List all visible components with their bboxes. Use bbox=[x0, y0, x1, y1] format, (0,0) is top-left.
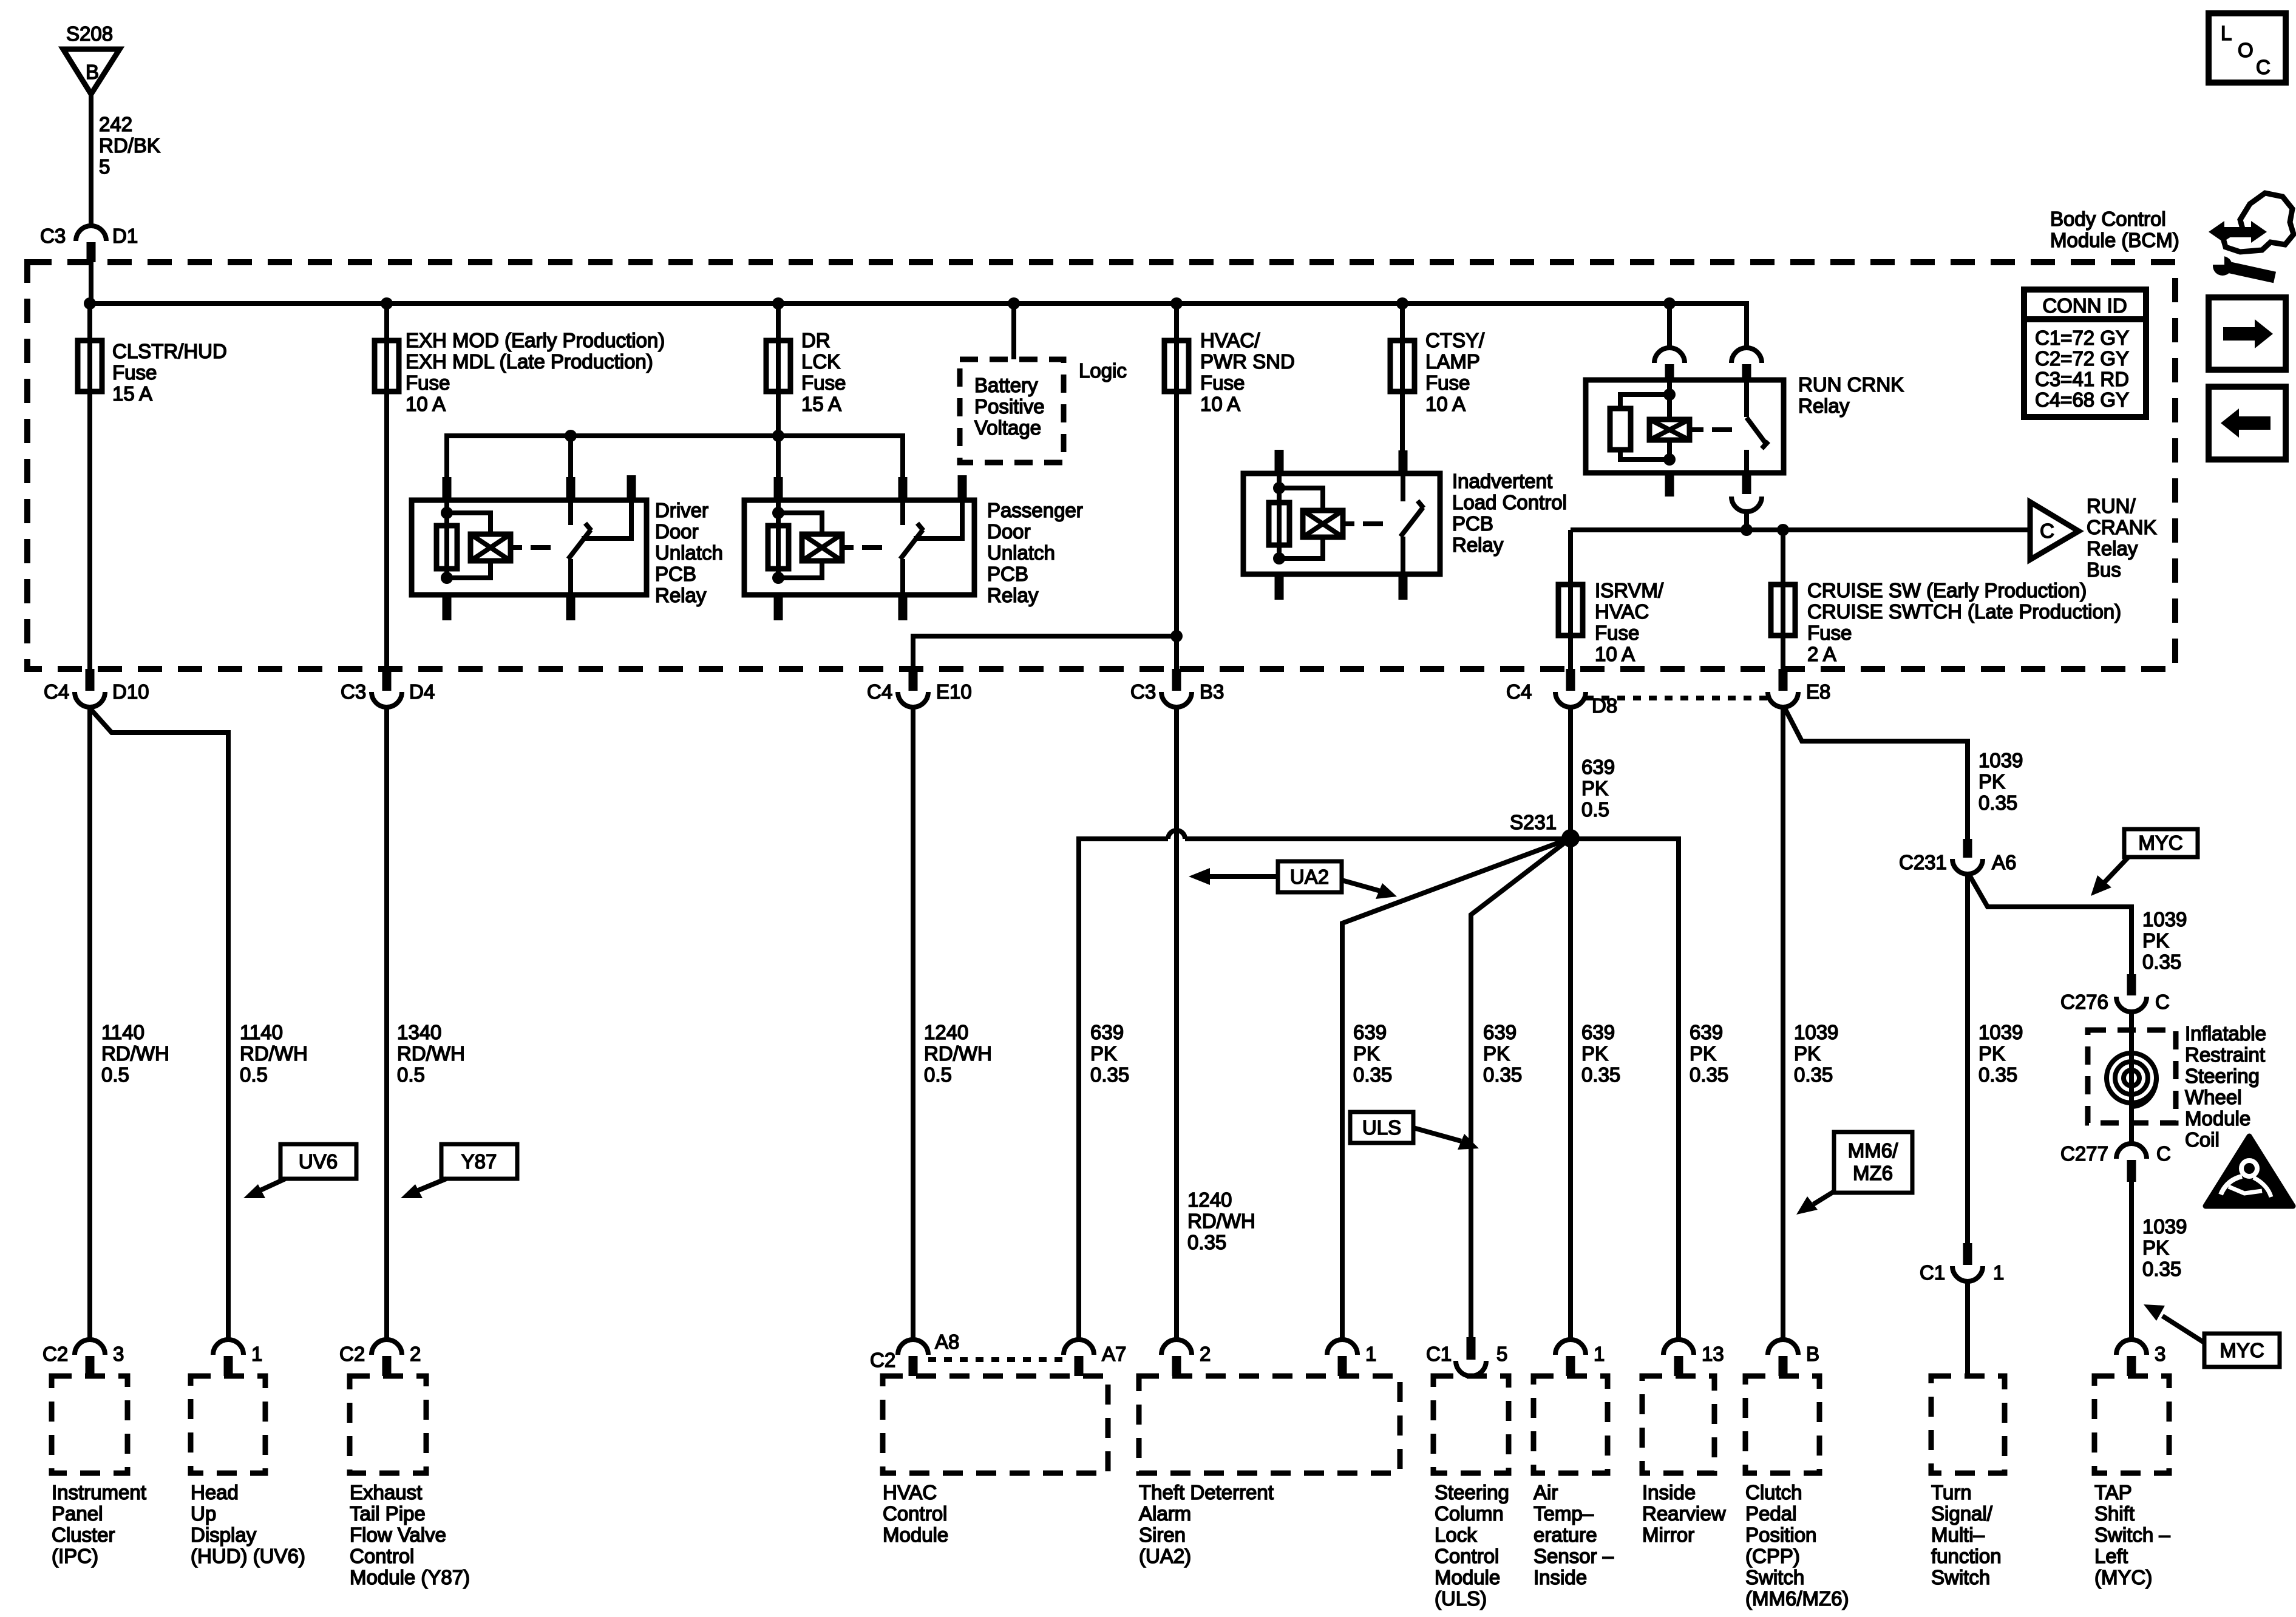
connector C277 C bbox=[2060, 1142, 2171, 1182]
connector arc RUN CRNK switch (internal) bbox=[1731, 348, 1762, 380]
wire B3 to Theft siren pin 2 bbox=[1174, 707, 1179, 1341]
svg-text:MYC: MYC bbox=[2220, 1339, 2264, 1361]
svg-text:C277: C277 bbox=[2060, 1142, 2108, 1165]
label Body Control Module (BCM) bbox=[2050, 208, 2179, 251]
wire S231 down to Air Temperature Sensor bbox=[1568, 838, 1573, 1341]
svg-text:C: C bbox=[2155, 991, 2170, 1013]
svg-text:C231: C231 bbox=[1899, 851, 1947, 873]
svg-text:Lock: Lock bbox=[1435, 1524, 1477, 1546]
svg-text:(IPC): (IPC) bbox=[52, 1545, 98, 1567]
svg-text:0.35: 0.35 bbox=[1353, 1063, 1392, 1086]
svg-text:(HUD) (UV6): (HUD) (UV6) bbox=[191, 1545, 305, 1567]
wire label 1039 PK 0.35 (turn signal) bbox=[1978, 1021, 2023, 1086]
svg-text:DR: DR bbox=[801, 329, 830, 351]
connector 3 (TAP switch) bbox=[2116, 1340, 2165, 1376]
off-page arrow C RUN/CRANK Relay Bus bbox=[2030, 502, 2079, 560]
connector 13 (mirror) bbox=[1663, 1340, 1724, 1376]
wire K3 actuation dashed link bbox=[1363, 521, 1391, 526]
svg-text:Head: Head bbox=[191, 1481, 239, 1503]
svg-text:C1: C1 bbox=[1920, 1261, 1945, 1284]
Inflatable Restraint Steering Wheel Module Coil dashed box bbox=[2088, 1030, 2176, 1123]
wire K1 coil actuator stub bbox=[511, 545, 522, 550]
svg-text:Switch –: Switch – bbox=[2094, 1524, 2170, 1546]
svg-text:CONN ID: CONN ID bbox=[2042, 294, 2127, 317]
svg-text:C3: C3 bbox=[1130, 680, 1156, 703]
wire S231 branch to Theft siren pin 1 bbox=[1342, 838, 1571, 1341]
pin K1 NO contact top stub bbox=[627, 475, 636, 500]
svg-text:1240: 1240 bbox=[1187, 1188, 1232, 1211]
svg-text:Y87: Y87 bbox=[461, 1150, 497, 1173]
svg-text:(MYC): (MYC) bbox=[2094, 1566, 2152, 1588]
module TAP Shift Switch Left box bbox=[2094, 1376, 2169, 1473]
module Steering Column Lock Control Module box bbox=[1433, 1376, 1509, 1473]
wire label 1240 RD/WH 0.35 bbox=[1187, 1188, 1255, 1253]
node K3 coil top junction bbox=[1273, 482, 1285, 494]
wire K1 switch bottom bbox=[568, 559, 573, 595]
module Instrument Panel Cluster box bbox=[52, 1376, 127, 1473]
node bus junction at EXH fuse bbox=[381, 297, 393, 310]
wire K4 coil bottom bbox=[1667, 440, 1672, 459]
wire K4 resistor loop bbox=[1620, 395, 1669, 410]
svg-text:(MM6/MZ6): (MM6/MZ6) bbox=[1745, 1587, 1849, 1610]
wire K4 actuation dashed link bbox=[1712, 427, 1736, 432]
label box UV6 bbox=[243, 1144, 356, 1198]
node bus junction at DR LCK fuse bbox=[772, 297, 784, 310]
switch K4 armature bbox=[1747, 418, 1768, 449]
svg-text:0.35: 0.35 bbox=[2142, 951, 2181, 973]
svg-text:EXH MDL (Late Production): EXH MDL (Late Production) bbox=[406, 350, 653, 373]
svg-text:0.35: 0.35 bbox=[2142, 1258, 2181, 1280]
svg-text:Clutch: Clutch bbox=[1745, 1481, 1802, 1503]
connector C4 E10 bbox=[867, 669, 972, 707]
svg-text:1140: 1140 bbox=[240, 1021, 283, 1043]
svg-text:1240: 1240 bbox=[924, 1021, 968, 1043]
svg-text:CRANK: CRANK bbox=[2087, 516, 2157, 538]
svg-text:0.35: 0.35 bbox=[1978, 792, 2017, 814]
svg-text:639: 639 bbox=[1690, 1021, 1723, 1043]
label RUN CRNK Relay bbox=[1798, 373, 1904, 417]
svg-text:0.35: 0.35 bbox=[1090, 1063, 1129, 1086]
svg-text:C: C bbox=[2156, 1142, 2171, 1165]
wire label 1140 RD/WH 0.5 (HUD) bbox=[240, 1021, 308, 1086]
wire label 242 RD/BK 5 bbox=[99, 113, 160, 178]
svg-text:C2: C2 bbox=[339, 1343, 365, 1365]
svg-text:MYC: MYC bbox=[2138, 832, 2182, 854]
pin K2 switch bottom stub bbox=[898, 595, 908, 620]
node K2 coil top junction bbox=[772, 507, 784, 519]
svg-text:S208: S208 bbox=[66, 22, 113, 45]
svg-text:RD/WH: RD/WH bbox=[240, 1042, 308, 1065]
wire K4 coil actuator stub bbox=[1690, 427, 1703, 432]
wire K1 coil loop return bbox=[447, 561, 491, 578]
svg-text:Coil: Coil bbox=[2185, 1128, 2220, 1151]
svg-text:C1=72 GY: C1=72 GY bbox=[2035, 327, 2129, 349]
node junction DR LCK at rail bbox=[772, 430, 784, 442]
connector C276 C bbox=[2060, 974, 2170, 1013]
wire branch D10 to HUD bbox=[91, 710, 228, 1341]
wire K2 coil branch bbox=[776, 500, 781, 578]
icon hand with arrows and wrench bbox=[2209, 193, 2294, 277]
svg-text:1039: 1039 bbox=[1794, 1021, 1838, 1043]
svg-text:Voltage: Voltage bbox=[974, 416, 1041, 439]
module HVAC Control Module box bbox=[883, 1376, 1108, 1473]
pin K1 coil top bbox=[443, 477, 452, 500]
label Inflatable Restraint Steering Wheel Module Coil bbox=[2185, 1022, 2266, 1151]
svg-text:1039: 1039 bbox=[1978, 1021, 2023, 1043]
svg-text:A7: A7 bbox=[1102, 1343, 1126, 1365]
svg-text:PCB: PCB bbox=[987, 563, 1028, 585]
wire A6 down to C1 1 bbox=[1965, 874, 1970, 1243]
svg-text:Rearview: Rearview bbox=[1642, 1502, 1726, 1525]
svg-text:Restraint: Restraint bbox=[2185, 1043, 2265, 1066]
wire battery logic drop bbox=[1011, 303, 1016, 359]
connector B (CPP switch) bbox=[1768, 1340, 1819, 1376]
connector E8 bbox=[1768, 669, 1830, 707]
svg-text:2 A: 2 A bbox=[1807, 643, 1836, 665]
label Driver Door Unlatch PCB Relay bbox=[655, 499, 723, 606]
pin K3 switch top bbox=[1399, 450, 1408, 473]
svg-text:PK: PK bbox=[2142, 929, 2169, 952]
wire RUN CRNK output to rail bbox=[1744, 512, 1749, 530]
node bus junction at battery logic bbox=[1008, 297, 1020, 310]
svg-text:Left: Left bbox=[2094, 1545, 2128, 1567]
svg-text:Switch: Switch bbox=[1745, 1566, 1804, 1588]
wire BCM internal supply bus bbox=[90, 301, 1747, 306]
svg-text:MZ6: MZ6 bbox=[1853, 1162, 1893, 1184]
wire branch to E10 bbox=[913, 636, 1177, 691]
svg-text:0.5: 0.5 bbox=[240, 1063, 268, 1086]
svg-text:Cluster: Cluster bbox=[52, 1524, 115, 1546]
wire label 639 PK 0.35 (A7) bbox=[1090, 1021, 1129, 1086]
splice S208 bbox=[63, 22, 120, 94]
svg-text:RD/WH: RD/WH bbox=[924, 1042, 992, 1065]
pin K3 switch bottom stub bbox=[1399, 574, 1408, 600]
wire RUN CRNK coil feed bbox=[1667, 303, 1672, 349]
label Passenger Door Unlatch PCB Relay bbox=[987, 499, 1083, 606]
wire E8 branch to C231 A6 bbox=[1785, 708, 1968, 839]
pin K4 switch bottom bbox=[1742, 473, 1751, 494]
svg-text:10 A: 10 A bbox=[1425, 393, 1466, 415]
wire K3 coil loop return bbox=[1279, 537, 1323, 558]
wire A6 branch to C276 bbox=[1969, 874, 2131, 974]
svg-text:1039: 1039 bbox=[2142, 908, 2187, 931]
svg-text:PK: PK bbox=[1581, 777, 1608, 799]
svg-text:Fuse: Fuse bbox=[1200, 371, 1245, 394]
label Theft Deterrent Alarm Siren (UA2) bbox=[1139, 1481, 1274, 1567]
svg-text:HVAC/: HVAC/ bbox=[1200, 329, 1260, 351]
wire K3 switch bottom bbox=[1401, 537, 1405, 574]
svg-text:Inside: Inside bbox=[1642, 1481, 1696, 1503]
svg-text:Alarm: Alarm bbox=[1139, 1502, 1191, 1525]
svg-text:L: L bbox=[2221, 22, 2232, 44]
svg-text:Fuse: Fuse bbox=[801, 371, 846, 394]
coil K1 (box with X) bbox=[470, 534, 511, 561]
svg-text:E10: E10 bbox=[936, 680, 972, 703]
pin K3 coil top stub bbox=[1275, 450, 1284, 473]
svg-text:Module: Module bbox=[1435, 1566, 1500, 1588]
svg-text:B3: B3 bbox=[1200, 680, 1224, 703]
wire D1 to bus bbox=[89, 262, 93, 303]
wire S231 branch to ULS module bbox=[1471, 838, 1571, 1337]
fuse CTSY/LAMP 10A bbox=[1390, 341, 1415, 392]
svg-text:Sensor –: Sensor – bbox=[1533, 1545, 1614, 1567]
switch K3 contact bbox=[1401, 473, 1405, 501]
svg-text:Inflatable: Inflatable bbox=[2185, 1022, 2266, 1045]
label ISRVM/HVAC Fuse 10 A bbox=[1595, 579, 1664, 665]
svg-text:Display: Display bbox=[191, 1524, 257, 1546]
svg-text:10 A: 10 A bbox=[1200, 393, 1240, 415]
svg-text:Exhaust: Exhaust bbox=[350, 1481, 422, 1503]
node bus junction at HVAC fuse bbox=[1170, 297, 1183, 310]
label HVAC Control Module bbox=[883, 1481, 948, 1546]
svg-text:PK: PK bbox=[1483, 1042, 1510, 1065]
resistor K1 bbox=[436, 526, 457, 569]
svg-text:Pedal: Pedal bbox=[1745, 1502, 1796, 1525]
label CTSY/LAMP Fuse 10 A bbox=[1425, 329, 1485, 415]
svg-text:(ULS): (ULS) bbox=[1435, 1587, 1487, 1610]
label CRUISE SW Fuse 2 A bbox=[1807, 579, 2121, 665]
svg-text:Steering: Steering bbox=[1435, 1481, 1509, 1503]
label box UA2 with arrows bbox=[1189, 861, 1397, 899]
svg-text:Wheel: Wheel bbox=[2185, 1086, 2242, 1108]
svg-text:D1: D1 bbox=[112, 225, 138, 247]
wire EXH fuse drop bbox=[384, 303, 389, 691]
pin K2 switch top bbox=[898, 477, 908, 500]
module Air Temperature Sensor box bbox=[1533, 1376, 1608, 1473]
node junction HVAC branch to E10 bbox=[1170, 630, 1183, 642]
svg-text:RD/WH: RD/WH bbox=[397, 1042, 465, 1065]
svg-text:CRUISE SW (Early Production): CRUISE SW (Early Production) bbox=[1807, 579, 2087, 602]
wire K4 coil branch bbox=[1667, 380, 1672, 419]
svg-text:O: O bbox=[2238, 39, 2254, 61]
connector C2 2 (Y87) bbox=[339, 1340, 421, 1376]
switch K1 armature bbox=[568, 523, 591, 559]
svg-text:MM6/: MM6/ bbox=[1848, 1139, 1898, 1162]
svg-text:function: function bbox=[1931, 1545, 2002, 1567]
pin K2 coil bottom stub bbox=[774, 595, 783, 620]
wire K2 coil loop return bbox=[778, 561, 822, 578]
svg-text:RD/WH: RD/WH bbox=[101, 1042, 169, 1065]
svg-text:ULS: ULS bbox=[1362, 1116, 1401, 1139]
label EXH MOD Fuse 10 A bbox=[406, 329, 665, 415]
svg-text:PK: PK bbox=[1581, 1042, 1608, 1065]
icon SIR airbag warning triangle bbox=[2206, 1136, 2293, 1206]
svg-text:Module: Module bbox=[2185, 1107, 2250, 1130]
wire CLSTR fuse drop bbox=[87, 303, 92, 691]
svg-text:Passenger: Passenger bbox=[987, 499, 1083, 521]
wire D8 to splice S231 bbox=[1568, 707, 1573, 838]
wire K4 resistor loop return bbox=[1620, 449, 1669, 459]
svg-text:Relay: Relay bbox=[1798, 395, 1850, 417]
svg-text:Multi–: Multi– bbox=[1931, 1524, 1985, 1546]
pin K2 coil top bbox=[774, 477, 783, 500]
svg-text:1: 1 bbox=[1993, 1261, 2004, 1284]
wire K1 actuation dashed link bbox=[531, 545, 559, 550]
svg-text:Instrument: Instrument bbox=[52, 1481, 146, 1503]
connector C4 D8 bbox=[1506, 669, 1617, 717]
svg-text:Relay: Relay bbox=[2087, 537, 2138, 560]
svg-text:EXH MOD (Early Production): EXH MOD (Early Production) bbox=[406, 329, 665, 351]
label Air Temperature Sensor - Inside bbox=[1533, 1481, 1614, 1588]
svg-text:0.35: 0.35 bbox=[1187, 1231, 1226, 1253]
svg-text:C276: C276 bbox=[2060, 991, 2108, 1013]
wire label 639 PK 0.35 (mirror) bbox=[1690, 1021, 1728, 1086]
svg-text:0.5: 0.5 bbox=[101, 1063, 129, 1086]
wire label 1039 PK 0.35 (CPP) bbox=[1794, 1021, 1838, 1086]
svg-text:ISRVM/: ISRVM/ bbox=[1595, 579, 1664, 602]
svg-text:(CPP): (CPP) bbox=[1745, 1545, 1800, 1567]
label Clutch Pedal Position (CPP) Switch (MM6/MZ6) bbox=[1745, 1481, 1849, 1610]
svg-text:1340: 1340 bbox=[397, 1021, 441, 1043]
svg-text:PK: PK bbox=[2142, 1236, 2169, 1259]
wire E10 to HVAC module A8 bbox=[911, 707, 915, 1341]
label Inadvertent Load Control PCB Relay bbox=[1452, 470, 1567, 556]
svg-text:Steering: Steering bbox=[2185, 1065, 2260, 1087]
pin K3 coil bottom stub bbox=[1275, 574, 1284, 600]
wire label 1340 RD/WH 0.5 bbox=[397, 1021, 465, 1086]
relay K1 Driver Door Unlatch PCB Relay box bbox=[412, 500, 647, 595]
dotted connector link A8 to A7 bbox=[928, 1357, 1064, 1362]
svg-text:Theft Deterrent: Theft Deterrent bbox=[1139, 1481, 1274, 1503]
svg-text:Control: Control bbox=[883, 1502, 947, 1525]
relay K3 Inadvertent Load Control PCB Relay box bbox=[1243, 473, 1440, 574]
wire K3 coil actuator stub bbox=[1343, 521, 1354, 526]
svg-text:0.35: 0.35 bbox=[1690, 1063, 1728, 1086]
connector 2 (theft siren) bbox=[1161, 1340, 1211, 1376]
wire label 1039 PK 0.35 (coil feed) bbox=[2142, 908, 2187, 973]
svg-text:Control: Control bbox=[1435, 1545, 1499, 1567]
svg-text:C: C bbox=[2256, 56, 2271, 78]
wire CRUISE fuse drop bbox=[1781, 530, 1785, 691]
connector C3 D4 bbox=[341, 669, 435, 707]
svg-text:CLSTR/HUD: CLSTR/HUD bbox=[112, 340, 227, 362]
wire K4 switch bottom bbox=[1744, 450, 1749, 473]
svg-text:C4: C4 bbox=[44, 680, 69, 703]
svg-text:242: 242 bbox=[99, 113, 132, 135]
svg-text:A6: A6 bbox=[1992, 851, 2016, 873]
svg-text:C2: C2 bbox=[870, 1349, 895, 1371]
wire driver switch drop bbox=[568, 436, 573, 480]
svg-text:1039: 1039 bbox=[2142, 1215, 2187, 1238]
wire label 639 PK 0.5 bbox=[1581, 756, 1615, 821]
node K1 coil top junction bbox=[441, 507, 453, 519]
svg-text:Column: Column bbox=[1435, 1502, 1504, 1525]
svg-text:Control: Control bbox=[350, 1545, 414, 1567]
wire K2 coil loop bbox=[778, 513, 822, 535]
svg-text:Shift: Shift bbox=[2094, 1502, 2135, 1525]
label Battery Positive Voltage bbox=[974, 374, 1045, 439]
svg-text:1: 1 bbox=[1594, 1343, 1605, 1365]
svg-text:PK: PK bbox=[1978, 1042, 2005, 1065]
svg-text:639: 639 bbox=[1483, 1021, 1517, 1043]
label Turn Signal Multi-function Switch bbox=[1931, 1481, 2002, 1588]
wire S231 left branch to A7 (hop over B3 wire) bbox=[1079, 830, 1571, 1341]
svg-text:Switch: Switch bbox=[1931, 1566, 1990, 1588]
svg-text:Air: Air bbox=[1533, 1481, 1558, 1503]
CONN ID table bbox=[2024, 290, 2146, 417]
svg-text:B: B bbox=[1806, 1343, 1819, 1365]
wire label 1039 PK 0.35 (A6 feed) bbox=[1978, 749, 2023, 814]
connector C231 A6 bbox=[1899, 839, 2016, 874]
connector C1 1 (turn signal) bbox=[1920, 1243, 2004, 1284]
wire K1 coil loop bbox=[447, 513, 491, 535]
svg-text:HVAC: HVAC bbox=[1595, 600, 1649, 623]
module Inside Rearview Mirror box bbox=[1642, 1376, 1714, 1473]
wire through coil bbox=[2129, 1012, 2134, 1144]
svg-text:639: 639 bbox=[1090, 1021, 1124, 1043]
wire HVAC fuse drop bbox=[1174, 303, 1179, 691]
svg-text:Inadvertent: Inadvertent bbox=[1452, 470, 1552, 492]
switch K1 contact bbox=[568, 500, 573, 525]
node junction rail at RUN CRNK bbox=[1741, 524, 1753, 536]
svg-text:C4: C4 bbox=[867, 680, 892, 703]
svg-text:0.5: 0.5 bbox=[1581, 798, 1609, 821]
svg-text:Flow Valve: Flow Valve bbox=[350, 1524, 446, 1546]
svg-text:2: 2 bbox=[1200, 1343, 1211, 1365]
wire label 639 PK 0.35 (ULS) bbox=[1483, 1021, 1522, 1086]
node bus junction at RUN CRNK relay bbox=[1663, 297, 1676, 310]
Battery Positive Voltage dashed box bbox=[960, 359, 1064, 463]
wire label 1039 PK 0.35 (TAP) bbox=[2142, 1215, 2187, 1280]
node K1 coil bottom junction bbox=[441, 572, 453, 584]
svg-text:Fuse: Fuse bbox=[112, 361, 157, 384]
connector C3 D1 (into BCM) bbox=[40, 225, 138, 262]
label CLSTR/HUD Fuse 15 A bbox=[112, 340, 227, 405]
svg-text:TAP: TAP bbox=[2094, 1481, 2132, 1503]
fuse EXH MOD/MDL 10A bbox=[375, 341, 399, 392]
splice S231 bbox=[1510, 811, 1580, 847]
pin K1 switch top bbox=[566, 477, 576, 500]
svg-text:Tail Pipe: Tail Pipe bbox=[350, 1502, 426, 1525]
connector C4 D10 bbox=[44, 669, 149, 707]
svg-text:639: 639 bbox=[1581, 756, 1615, 778]
module Exhaust Tail Pipe Flow Valve Control Module box bbox=[350, 1376, 426, 1473]
svg-text:Fuse: Fuse bbox=[1595, 622, 1639, 644]
node bus junction at CTSY fuse bbox=[1396, 297, 1408, 310]
clockspring coil spiral bbox=[2107, 1053, 2156, 1107]
label box Y87 bbox=[401, 1144, 517, 1198]
wire label 639 PK 0.35 (siren) bbox=[1353, 1021, 1392, 1086]
svg-text:PK: PK bbox=[1978, 770, 2005, 793]
resistor K4 bbox=[1610, 408, 1631, 450]
pin K1 switch bottom stub bbox=[566, 595, 576, 620]
svg-text:2: 2 bbox=[410, 1343, 421, 1365]
icon left arrow box bbox=[2209, 387, 2286, 459]
svg-text:PWR SND: PWR SND bbox=[1200, 350, 1295, 373]
fuse DR LCK 15A bbox=[766, 341, 790, 392]
svg-text:C3: C3 bbox=[341, 680, 366, 703]
resistor K2 bbox=[768, 526, 789, 569]
svg-text:15 A: 15 A bbox=[112, 382, 152, 405]
module Clutch Pedal Position Switch box bbox=[1745, 1376, 1819, 1473]
svg-text:0.35: 0.35 bbox=[1978, 1063, 2017, 1086]
switch K4 contact bbox=[1744, 380, 1749, 417]
wire E8 to CPP switch bbox=[1781, 707, 1785, 1341]
label box MM6/MZ6 with arrow bbox=[1796, 1132, 1912, 1215]
wire label 1240 RD/WH 0.5 bbox=[924, 1021, 992, 1086]
label box MYC upper with arrow bbox=[2091, 829, 2198, 896]
svg-text:RUN CRNK: RUN CRNK bbox=[1798, 373, 1904, 396]
wire bus corner to RUN CRNK switch bbox=[1744, 303, 1747, 349]
wire K3 coil loop bbox=[1279, 488, 1323, 512]
wire relay feed rail from DR LCK fuse bbox=[447, 436, 903, 480]
svg-text:Signal/: Signal/ bbox=[1931, 1502, 1993, 1525]
icon right arrow box bbox=[2209, 297, 2286, 370]
svg-text:A8: A8 bbox=[935, 1331, 959, 1353]
svg-text:RD/BK: RD/BK bbox=[99, 134, 160, 157]
wire C277 to TAP switch bbox=[2129, 1182, 2134, 1341]
wire DR LCK fuse drop bbox=[776, 303, 781, 480]
